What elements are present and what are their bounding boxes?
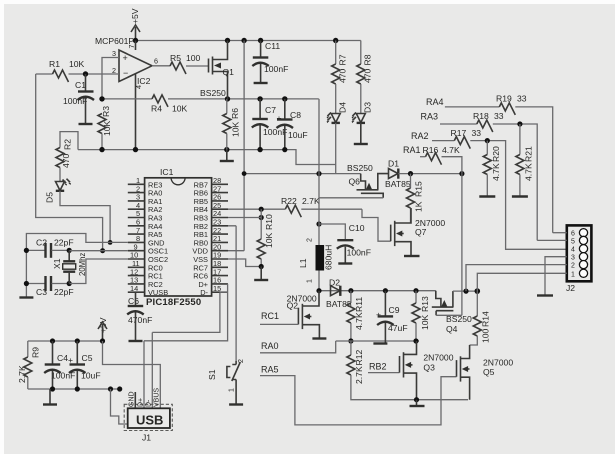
- wire rail2 (R4 row y=98.9): [102, 98, 152, 100]
- svg-text:C11: C11: [265, 41, 280, 51]
- capacitor C5 10uF: [68, 341, 101, 389]
- ground S1: [229, 403, 243, 405]
- svg-text:X1: X1: [52, 258, 62, 269]
- ground R21: [512, 195, 528, 197]
- pin GND J1: [134, 392, 136, 408]
- resistor R15 1K: [407, 174, 424, 223]
- net label RA2: [411, 131, 454, 141]
- wire rail2 continues: [168, 98, 319, 100]
- wire rail3 (gnd row y=149.6): [78, 150, 336, 165]
- wire VDD pin20 riser to +5V rail: [228, 41, 244, 251]
- svg-text:100nF: 100nF: [63, 96, 87, 106]
- node R1/C1 junction: [83, 71, 88, 76]
- node Q3 source gnd: [414, 397, 419, 402]
- node Q1 top rail: [225, 38, 230, 43]
- node C8: [282, 96, 287, 101]
- svg-text:RA3: RA3: [421, 112, 439, 122]
- node C9 top: [383, 288, 388, 293]
- diode D1 BAT85: [385, 159, 411, 190]
- wire D- pin15 to USB: [152, 292, 228, 332]
- net label RA5: [260, 365, 457, 425]
- svg-text:Q4: Q4: [446, 324, 458, 334]
- resistor R16 4.7K: [423, 145, 462, 174]
- IC1 left pin numbers: [130, 176, 140, 293]
- svg-text:100: 100: [186, 53, 201, 63]
- svg-text:R7: R7: [338, 54, 348, 65]
- svg-text:100nF: 100nF: [263, 127, 287, 137]
- svg-text:IC2: IC2: [137, 76, 151, 86]
- ground Q3 row: [416, 400, 418, 406]
- svg-text:R2: R2: [63, 139, 73, 150]
- svg-text:D-: D-: [200, 288, 208, 297]
- inductor L1 680uH: [298, 238, 334, 291]
- svg-text:1: 1: [307, 279, 314, 283]
- node R11 top: [348, 288, 353, 293]
- wire +5V rail bottom: [28, 340, 103, 342]
- wire RA1 vertical to Q4 gate: [461, 174, 463, 316]
- svg-text:6: 6: [154, 57, 158, 66]
- svg-text:D+: D+: [137, 398, 144, 407]
- svg-text:D3: D3: [363, 102, 373, 113]
- svg-text:2: 2: [307, 238, 314, 242]
- svg-text:100: 100: [481, 328, 491, 343]
- svg-text:BS250: BS250: [347, 163, 373, 173]
- transistor Q5 2N7000: [457, 345, 514, 400]
- svg-text:C10: C10: [349, 223, 365, 233]
- ground C10: [338, 262, 352, 264]
- svg-text:R20: R20: [491, 146, 501, 162]
- svg-text:20Mhz: 20Mhz: [78, 252, 87, 276]
- svg-text:+: +: [123, 53, 128, 63]
- svg-text:33: 33: [472, 128, 482, 138]
- svg-text:R3: R3: [101, 106, 111, 117]
- IC1 right pin names: [192, 180, 208, 297]
- svg-text:22pF: 22pF: [54, 238, 74, 248]
- svg-text:J1: J1: [142, 433, 151, 443]
- resistor R18 33: [473, 111, 537, 240]
- net label RB2: [368, 362, 400, 373]
- svg-text:10K: 10K: [172, 104, 188, 114]
- resistor R21 4.7K: [516, 124, 534, 196]
- ground C6: [129, 340, 143, 342]
- svg-text:47uF: 47uF: [388, 323, 408, 333]
- node C11 rail: [258, 38, 263, 43]
- resistor R7 470: [332, 41, 348, 114]
- svg-text:Q2: Q2: [287, 301, 299, 311]
- ground Q7: [404, 255, 420, 257]
- resistor R19 33: [496, 94, 553, 233]
- svg-text:D1: D1: [388, 159, 399, 169]
- svg-text:C9: C9: [389, 305, 400, 315]
- svg-text:Q5: Q5: [483, 367, 495, 377]
- svg-text:C7: C7: [265, 105, 276, 115]
- resistor R9 2.7K: [17, 341, 41, 389]
- ground bottom rail: [49, 389, 51, 404]
- node R6 bottom: [224, 147, 229, 152]
- node R10 top: [259, 207, 264, 212]
- node pin4/rail3: [133, 147, 138, 152]
- svg-text:VUSB: VUSB: [148, 288, 168, 297]
- crystal X1 20MHz: [52, 250, 87, 283]
- svg-text:1: 1: [229, 388, 236, 392]
- wire D+ pin16 to USB: [144, 284, 228, 341]
- node C7 bottom rail3: [257, 147, 262, 152]
- svg-text:Q1: Q1: [223, 67, 235, 77]
- transistor Q3 2N7000: [400, 341, 454, 400]
- transistor Q7 2N7000: [391, 208, 446, 256]
- net label RA3: [421, 112, 477, 125]
- resistor R3 10K: [98, 106, 112, 150]
- node Q1 bottom: [225, 96, 230, 101]
- node L1 bottom: [316, 288, 321, 293]
- node R3/rail2: [99, 96, 104, 101]
- node C5 top: [75, 338, 80, 343]
- svg-text:2: 2: [238, 359, 245, 363]
- svg-text:4: 4: [571, 247, 575, 254]
- wire D- vertical into USB: [151, 332, 153, 408]
- resistor R20 4.7K: [483, 141, 501, 196]
- +5V supply symbol (op-amp): [130, 8, 140, 40]
- ground C9: [373, 342, 387, 344]
- svg-text:RA1: RA1: [403, 145, 421, 155]
- node C8 bottom rail3: [282, 147, 287, 152]
- node +5V/pin7 junction: [133, 38, 138, 43]
- resistor R2 470: [56, 132, 78, 181]
- resistor R8 470: [357, 41, 373, 114]
- svg-text:RA4: RA4: [426, 97, 444, 107]
- svg-text:Q6: Q6: [349, 177, 361, 187]
- capacitor C4 100nF: [44, 341, 75, 389]
- wire OSC2: [69, 259, 128, 284]
- node C7: [257, 96, 262, 101]
- svg-text:IC1: IC1: [160, 167, 174, 177]
- wire RB2 pin23 to S1: [228, 226, 236, 361]
- +5V supply symbol (USB): [98, 317, 108, 341]
- svg-text:100nF: 100nF: [347, 248, 371, 258]
- wire +5V to VBUS: [103, 341, 161, 408]
- net label RA0: [260, 341, 336, 353]
- wire J2 pin6 entry: [553, 232, 567, 234]
- LED D4: [327, 102, 348, 123]
- IC U1 PIC18F2550 body: [145, 167, 212, 308]
- node J2 pin2 tee: [463, 289, 468, 294]
- node RA1/R16 junction: [459, 171, 464, 176]
- svg-text:14: 14: [130, 284, 138, 293]
- wire D1 row from VDD riser: [244, 173, 361, 175]
- svg-text:L1: L1: [298, 258, 308, 268]
- node C2 left: [24, 248, 29, 253]
- node R15 top: [408, 171, 413, 176]
- svg-text:33: 33: [494, 111, 504, 121]
- svg-text:R11: R11: [354, 297, 364, 312]
- svg-text:10K: 10K: [420, 314, 430, 330]
- node usb gnd stub2: [117, 386, 122, 391]
- svg-text:+: +: [376, 310, 381, 320]
- IC1 left pin stubs 1-14: [128, 184, 145, 292]
- svg-text:C1: C1: [75, 80, 86, 90]
- node C2 right: [67, 248, 72, 253]
- svg-text:RA5: RA5: [261, 365, 279, 375]
- resistor R5 100: [152, 53, 209, 74]
- connector J2: [566, 225, 591, 293]
- wire D5 to GND pin row: [60, 191, 110, 243]
- wire R1 left to OSC1 row: [36, 74, 103, 251]
- svg-text:10K: 10K: [231, 121, 241, 137]
- svg-text:RA2: RA2: [411, 131, 429, 141]
- svg-text:4: 4: [134, 85, 143, 89]
- svg-text:+: +: [277, 113, 282, 123]
- resistor R22 2.7K: [281, 196, 362, 217]
- svg-text:R12: R12: [354, 350, 364, 366]
- node Q4 drain / R14 / J2: [475, 288, 481, 294]
- svg-text:22pF: 22pF: [54, 287, 74, 297]
- wire VSS pin19 jog to R10 bottom: [228, 259, 261, 267]
- svg-text:C6: C6: [128, 296, 139, 306]
- node R13 bottom: [413, 338, 418, 343]
- svg-text:2N7000: 2N7000: [423, 353, 453, 363]
- capacitor C9 47uF: [376, 291, 408, 343]
- svg-text:C5: C5: [82, 353, 93, 363]
- node R20 top: [485, 138, 490, 143]
- svg-text:100nF: 100nF: [264, 64, 288, 74]
- wire J2 pin3 to ground: [545, 257, 567, 295]
- svg-text:4.7K: 4.7K: [524, 163, 534, 181]
- net label RA4: [426, 97, 499, 107]
- svg-text:USB: USB: [136, 412, 163, 427]
- svg-text:R22: R22: [281, 196, 297, 206]
- wire +input to R3 top: [102, 58, 119, 99]
- wire RB3 pin24 row: [228, 217, 261, 219]
- node RB3 row junction: [259, 215, 264, 220]
- svg-text:470nF: 470nF: [128, 315, 152, 325]
- svg-text:6: 6: [571, 231, 575, 238]
- ground R20: [479, 195, 495, 197]
- svg-text:RC1: RC1: [261, 311, 279, 321]
- wire C10 branch: [319, 224, 345, 240]
- node C4 bottom: [50, 386, 55, 391]
- resistor R4 10K: [151, 95, 188, 114]
- wire D4 cathode to D1 row: [335, 123, 337, 174]
- wire D2 row: [319, 290, 436, 292]
- svg-text:4.7K: 4.7K: [442, 145, 460, 155]
- svg-text:S1: S1: [207, 369, 217, 380]
- wire gnd staircase to USB: [111, 389, 128, 424]
- wire D+ vertical into USB: [143, 341, 145, 408]
- switch S1: [207, 359, 245, 404]
- svg-text:VBUS: VBUS: [154, 388, 161, 407]
- capacitor C7 100nF: [252, 99, 288, 150]
- resistor R13 10K: [412, 291, 430, 341]
- svg-text:BS250: BS250: [200, 88, 226, 98]
- node R10 bottom / VSS: [259, 264, 264, 269]
- svg-text:R6: R6: [230, 108, 240, 119]
- svg-text:MCP601P: MCP601P: [95, 36, 134, 46]
- net label RA1: [403, 145, 426, 157]
- svg-text:10uF: 10uF: [81, 371, 101, 381]
- svg-text:R4: R4: [151, 104, 162, 114]
- wire D1 to R16 node: [398, 173, 462, 175]
- node L1/rail2 drop junction: [316, 221, 321, 226]
- node R13 top: [413, 288, 418, 293]
- transistor Q2 2N7000: [287, 291, 320, 338]
- pin 7: [135, 41, 137, 51]
- resistor R10 10K: [257, 209, 274, 266]
- svg-text:D4: D4: [338, 102, 348, 113]
- net label RC1: [260, 311, 298, 324]
- svg-text:R14: R14: [481, 311, 491, 327]
- svg-text:R1: R1: [49, 59, 60, 69]
- capacitor C6 470nF: [127, 292, 152, 340]
- svg-text:PIC18F2550: PIC18F2550: [146, 297, 201, 308]
- wire RB4 pin25 row to R22: [228, 208, 285, 210]
- svg-text:33: 33: [517, 94, 527, 104]
- wire R22 to Q7 gate staircase: [362, 209, 391, 241]
- wire rail2 drop to LC tank: [318, 99, 320, 245]
- node R1 riser joins OSC1 wire: [100, 248, 105, 253]
- resistor R14 100: [470, 291, 491, 345]
- node R3 bottom: [99, 147, 104, 152]
- node rail2 drop joins D1 row: [316, 171, 321, 176]
- LED D3: [352, 102, 373, 123]
- svg-text:+5V: +5V: [130, 8, 140, 24]
- svg-text:R21: R21: [524, 146, 534, 162]
- wire J2 pin5 entry: [537, 239, 567, 241]
- svg-text:R10: R10: [264, 214, 274, 230]
- ground rail3 stub: [226, 150, 228, 161]
- node VDD riser / D1 row: [242, 171, 247, 176]
- capacitor C1 100nF: [63, 74, 94, 124]
- svg-text:3: 3: [571, 255, 575, 262]
- resistor R1 10K: [36, 59, 119, 82]
- diode D2 BAT85: [326, 278, 352, 310]
- svg-text:2N7000: 2N7000: [483, 358, 513, 368]
- svg-text:4.7K: 4.7K: [491, 163, 501, 181]
- svg-text:GND: GND: [129, 391, 136, 407]
- svg-text:2: 2: [571, 263, 575, 270]
- ground D3: [360, 123, 362, 144]
- capacitor C3 22pF: [26, 276, 73, 297]
- transistor Q6 BS250: [319, 163, 389, 198]
- ground crystal loop: [19, 296, 33, 298]
- node +5V arrow junction: [100, 338, 105, 343]
- svg-text:15: 15: [213, 284, 221, 293]
- node R11/R12 junction: [348, 338, 353, 343]
- svg-text:5: 5: [571, 238, 575, 245]
- wire ground rail bottom: [28, 388, 120, 390]
- svg-text:3: 3: [112, 49, 116, 58]
- capacitor C10 100nF: [337, 223, 371, 263]
- node C3 left: [24, 281, 29, 286]
- svg-text:C4: C4: [57, 353, 68, 363]
- wire J2 pin1 to R14 node: [477, 273, 567, 291]
- svg-text:4.7K: 4.7K: [354, 312, 364, 330]
- svg-text:BAT85: BAT85: [385, 179, 411, 189]
- wire gnd loop to pin8: [26, 234, 127, 298]
- svg-text:D5: D5: [45, 192, 55, 203]
- svg-text:−: −: [123, 68, 128, 78]
- IC1 left pin names: [148, 180, 168, 297]
- wire +5V rail (top rail y=40.5): [136, 40, 361, 42]
- resistor R6 10K: [223, 99, 241, 150]
- svg-text:Q3: Q3: [423, 363, 435, 373]
- svg-text:R8: R8: [363, 54, 373, 65]
- ground C1: [79, 123, 93, 125]
- resistor R11 4.7K: [347, 291, 364, 341]
- node C5 bottom: [75, 386, 80, 391]
- svg-text:1: 1: [571, 271, 575, 278]
- svg-text:D-: D-: [146, 399, 153, 407]
- capacitor C8 10uF: [277, 99, 308, 150]
- svg-text:RA0: RA0: [261, 341, 279, 351]
- capacitor C11 100nF: [252, 41, 288, 83]
- resistor R12 2.7K: [347, 341, 468, 400]
- node R7 rail: [333, 38, 338, 43]
- svg-text:10uF: 10uF: [288, 130, 308, 140]
- wire OSC1: [69, 250, 128, 252]
- ground J2 pin3: [537, 294, 553, 296]
- svg-text:2.7K: 2.7K: [302, 196, 320, 206]
- wire Q4 drain row: [453, 290, 477, 292]
- svg-text:10K: 10K: [69, 59, 85, 69]
- svg-text:680uH: 680uH: [324, 245, 334, 270]
- node usb gnd stub1: [108, 386, 113, 391]
- node VDD riser rail: [241, 38, 246, 43]
- op-amp U IC2 MCP601P: [95, 36, 158, 150]
- svg-text:Q7: Q7: [415, 227, 427, 237]
- node C4 top: [50, 338, 55, 343]
- svg-text:7: 7: [127, 45, 136, 49]
- svg-text:RB2: RB2: [369, 362, 387, 372]
- svg-text:R9: R9: [31, 347, 41, 358]
- svg-text:1K: 1K: [414, 201, 424, 212]
- wire RA0 row to R13 bottom: [336, 340, 419, 342]
- pin 4 wire to gnd rail: [135, 74, 137, 150]
- LED D5: [45, 179, 72, 203]
- wire J2 pin2 to Q4 drain row: [466, 265, 567, 292]
- svg-text:J2: J2: [566, 283, 575, 293]
- IC1 right pin stubs 28-15: [212, 184, 228, 292]
- capacitor C2 22pF: [26, 238, 73, 258]
- connector J1 USB: [124, 388, 172, 443]
- resistor R17 33: [451, 128, 567, 249]
- ground R10/VSS: [260, 267, 262, 280]
- ground Q2: [312, 337, 326, 339]
- IC1 right pin numbers: [213, 176, 221, 293]
- transistor Q4 BS250: [432, 291, 472, 334]
- ground C11: [254, 82, 268, 84]
- node R21 top: [517, 121, 522, 126]
- transistor Q1 BS250: [200, 41, 234, 99]
- node C3 right: [67, 281, 72, 286]
- svg-text:R13: R13: [420, 296, 430, 312]
